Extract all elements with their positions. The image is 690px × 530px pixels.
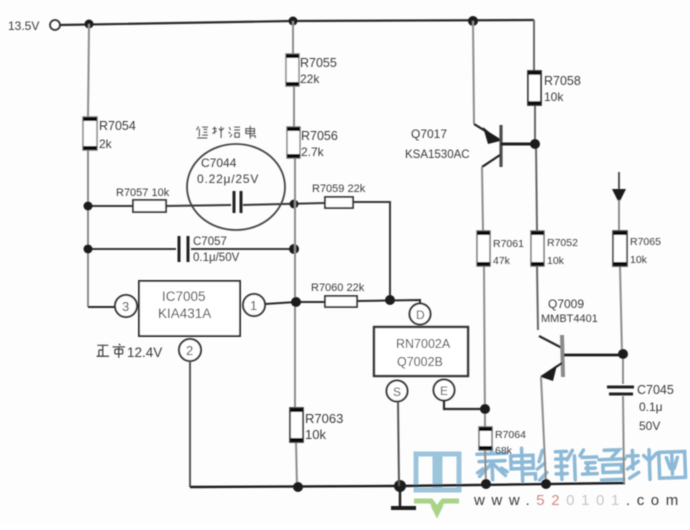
wire y302 run to R7060 bbox=[296, 300, 420, 304]
resistor R7064 bbox=[479, 427, 526, 457]
wire R7058 branch bbox=[534, 20, 538, 330]
resistor R7061 bbox=[477, 231, 524, 267]
node cap-left junction bbox=[84, 245, 93, 254]
pin 3 bbox=[88, 295, 137, 317]
node Q7009 base junction bbox=[618, 349, 628, 359]
wire R7065 branch bbox=[619, 200, 624, 483]
svg-text:10k: 10k bbox=[544, 90, 564, 104]
svg-text:R7055: R7055 bbox=[300, 56, 337, 70]
highlight circle around C7044 bbox=[187, 144, 285, 230]
svg-text:R7057 10k: R7057 10k bbox=[116, 187, 170, 199]
wire pin2 down bbox=[189, 361, 191, 487]
arrow input bbox=[612, 172, 626, 203]
pin 1 bbox=[243, 294, 296, 316]
node bottom ground junction bbox=[394, 480, 406, 492]
svg-text:R7065: R7065 bbox=[630, 236, 661, 248]
pin S bbox=[387, 381, 408, 402]
IC RN7002A block bbox=[374, 327, 468, 376]
svg-text:2k: 2k bbox=[99, 137, 113, 151]
node cap-right junction bbox=[289, 244, 299, 254]
watermark text 家电维修资料网 bbox=[477, 448, 686, 482]
svg-text:R7052: R7052 bbox=[547, 237, 578, 249]
transistor Q7009 bbox=[539, 297, 622, 381]
svg-text:D: D bbox=[416, 308, 425, 322]
wire middle vertical bbox=[293, 21, 297, 487]
svg-text:R7061: R7061 bbox=[493, 238, 524, 250]
resistor R7060 bbox=[311, 282, 365, 307]
node top-middle junction bbox=[289, 17, 298, 26]
wire bottom rail bbox=[190, 483, 625, 487]
svg-text:22k: 22k bbox=[300, 72, 320, 86]
svg-text:www.520101.com: www.520101.com bbox=[473, 492, 685, 509]
svg-text:10k: 10k bbox=[630, 254, 648, 266]
resistor R7059 bbox=[312, 183, 366, 208]
capacitor C7045 bbox=[607, 383, 674, 433]
resistor R7058 bbox=[528, 71, 581, 105]
node top-left junction bbox=[85, 20, 94, 29]
wire sense line y206 bbox=[88, 202, 390, 300]
svg-text:Q7009: Q7009 bbox=[548, 297, 584, 311]
svg-text:KIA431A: KIA431A bbox=[158, 306, 211, 321]
svg-text:12.4V: 12.4V bbox=[127, 345, 162, 360]
svg-text:R7064: R7064 bbox=[495, 429, 526, 441]
watermark book base bbox=[414, 501, 459, 513]
wire S down bbox=[398, 402, 399, 486]
svg-text:68k: 68k bbox=[495, 445, 513, 457]
IC U7005 block bbox=[139, 281, 240, 336]
node bottom collector junction bbox=[481, 479, 491, 489]
svg-text:10k: 10k bbox=[547, 255, 565, 267]
resistor R7055 bbox=[286, 54, 337, 86]
label 正常12.4V bbox=[97, 344, 163, 360]
svg-text:Q7017: Q7017 bbox=[411, 127, 447, 141]
wire E to R7064 bbox=[444, 401, 485, 409]
node left sense junction bbox=[84, 202, 93, 211]
svg-text:MMBT4401: MMBT4401 bbox=[541, 313, 598, 325]
svg-text:0.22μ/25V: 0.22μ/25V bbox=[197, 172, 259, 186]
node Q7017 base junction bbox=[530, 139, 540, 149]
transistor Q7017 bbox=[405, 21, 535, 167]
capacitor C7044 bbox=[197, 156, 259, 213]
wire Q7017 collector down bbox=[482, 167, 486, 484]
svg-text:13.5V: 13.5V bbox=[8, 19, 39, 33]
svg-text:IC7005: IC7005 bbox=[162, 289, 206, 304]
svg-text:R7058: R7058 bbox=[544, 74, 581, 88]
svg-text:R7060 22k: R7060 22k bbox=[311, 282, 365, 294]
resistor R7054 bbox=[83, 117, 136, 151]
resistor R7056 bbox=[287, 127, 338, 159]
svg-text:RN7002A: RN7002A bbox=[396, 337, 451, 351]
svg-text:R7056: R7056 bbox=[301, 129, 338, 143]
node bottom emitter junction bbox=[541, 479, 551, 489]
node junction x390 bbox=[385, 295, 395, 305]
svg-text:50V: 50V bbox=[639, 419, 660, 433]
watermark book icon bbox=[416, 454, 459, 490]
label 热机漏电 bbox=[196, 126, 255, 139]
svg-text:C7045: C7045 bbox=[637, 383, 674, 397]
pin E bbox=[434, 380, 455, 401]
node E junction bbox=[480, 404, 490, 414]
node sense-mid junction bbox=[290, 200, 299, 209]
wire cap line y249 bbox=[88, 248, 294, 250]
node top-right junction bbox=[468, 16, 478, 26]
svg-text:R7059 22k: R7059 22k bbox=[312, 183, 366, 195]
svg-text:C7044: C7044 bbox=[201, 156, 237, 170]
svg-text:0.1μ: 0.1μ bbox=[639, 400, 663, 414]
resistor R7052 bbox=[531, 231, 578, 267]
node bottom R7063 junction bbox=[293, 482, 303, 492]
resistor R7065 bbox=[613, 231, 661, 266]
wire top rail bbox=[60, 20, 534, 25]
svg-text:R7054: R7054 bbox=[99, 119, 136, 133]
svg-text:S: S bbox=[393, 385, 401, 399]
terminal 13.5V bbox=[8, 19, 60, 33]
svg-text:3: 3 bbox=[122, 299, 129, 314]
svg-text:2: 2 bbox=[186, 343, 193, 358]
resistor R7057 bbox=[116, 187, 170, 212]
node mid junction x296 bbox=[291, 297, 301, 307]
ground bbox=[391, 486, 416, 508]
svg-text:10k: 10k bbox=[305, 427, 326, 442]
resistor R7063 bbox=[290, 408, 343, 442]
svg-text:0.1μ/50V: 0.1μ/50V bbox=[193, 252, 240, 264]
svg-text:KSA1530AC: KSA1530AC bbox=[405, 149, 470, 161]
wire Q7009 emitter down bbox=[541, 377, 546, 484]
pin D bbox=[410, 304, 431, 325]
pin 2 bbox=[179, 339, 201, 361]
svg-text:R7063: R7063 bbox=[305, 411, 343, 426]
svg-text:E: E bbox=[440, 384, 448, 398]
svg-text:Q7002B: Q7002B bbox=[397, 355, 443, 369]
svg-text:47k: 47k bbox=[493, 255, 511, 267]
svg-text:2.7k: 2.7k bbox=[301, 145, 325, 159]
svg-text:C7057: C7057 bbox=[193, 236, 227, 248]
capacitor C7057 bbox=[179, 236, 240, 264]
svg-text:1: 1 bbox=[250, 298, 257, 313]
wire left vertical bbox=[88, 24, 89, 307]
